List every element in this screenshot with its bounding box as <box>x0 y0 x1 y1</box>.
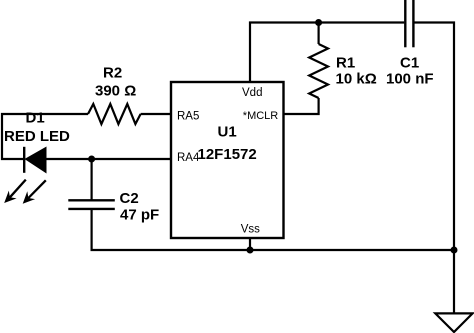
svg-text:RED LED: RED LED <box>4 128 70 145</box>
resistor R2 <box>88 104 141 124</box>
wire R1 top lead <box>318 23 320 45</box>
svg-text:100 nF: 100 nF <box>386 71 434 88</box>
wire left loop (R2 left to LED) <box>2 114 88 159</box>
wire C1 to right riser <box>414 23 454 314</box>
capacitor C2 <box>68 200 115 209</box>
svg-text:390 Ω: 390 Ω <box>95 82 136 99</box>
svg-text:C1: C1 <box>400 55 419 72</box>
svg-text:RA4: RA4 <box>177 152 200 164</box>
junction node right rail <box>451 247 458 254</box>
svg-text:47 pF: 47 pF <box>120 207 159 224</box>
wire C2 top lead <box>90 159 92 200</box>
resistor R1 <box>309 44 328 98</box>
svg-text:10 kΩ: 10 kΩ <box>336 71 377 88</box>
diode D1 (LED) triangle <box>25 147 46 172</box>
wire R1 bottom lead to MCLR <box>284 98 319 114</box>
svg-text:RA5: RA5 <box>177 111 199 123</box>
IC U1 box <box>171 82 284 238</box>
wire LED to RA4 <box>46 158 171 160</box>
LED emission arrow 1 <box>4 180 26 203</box>
junction node Vss/ground rail <box>247 247 254 254</box>
wire bottom rail <box>91 249 456 251</box>
LED emission arrow 2 <box>23 180 46 203</box>
svg-text:Vdd: Vdd <box>242 87 262 99</box>
junction node Vdd/R1 <box>315 19 322 26</box>
svg-text:D1: D1 <box>26 110 45 127</box>
wire Vss drop <box>249 238 251 250</box>
svg-text:C2: C2 <box>120 190 139 207</box>
wire R2 to RA5 <box>141 113 171 115</box>
ground <box>435 313 472 332</box>
svg-text:Vss: Vss <box>241 223 260 235</box>
svg-text:*MCLR: *MCLR <box>243 110 279 122</box>
svg-text:R1: R1 <box>336 55 355 72</box>
svg-text:U1: U1 <box>218 123 237 140</box>
svg-text:12F1572: 12F1572 <box>198 146 257 163</box>
capacitor C1 <box>405 0 413 47</box>
junction node RA4/C2 <box>88 156 95 163</box>
diode D1 (LED) cathode bar <box>23 147 25 173</box>
wire C2 bottom lead <box>90 209 92 250</box>
wire Vdd riser and top rail <box>250 23 404 83</box>
svg-text:R2: R2 <box>103 65 122 82</box>
